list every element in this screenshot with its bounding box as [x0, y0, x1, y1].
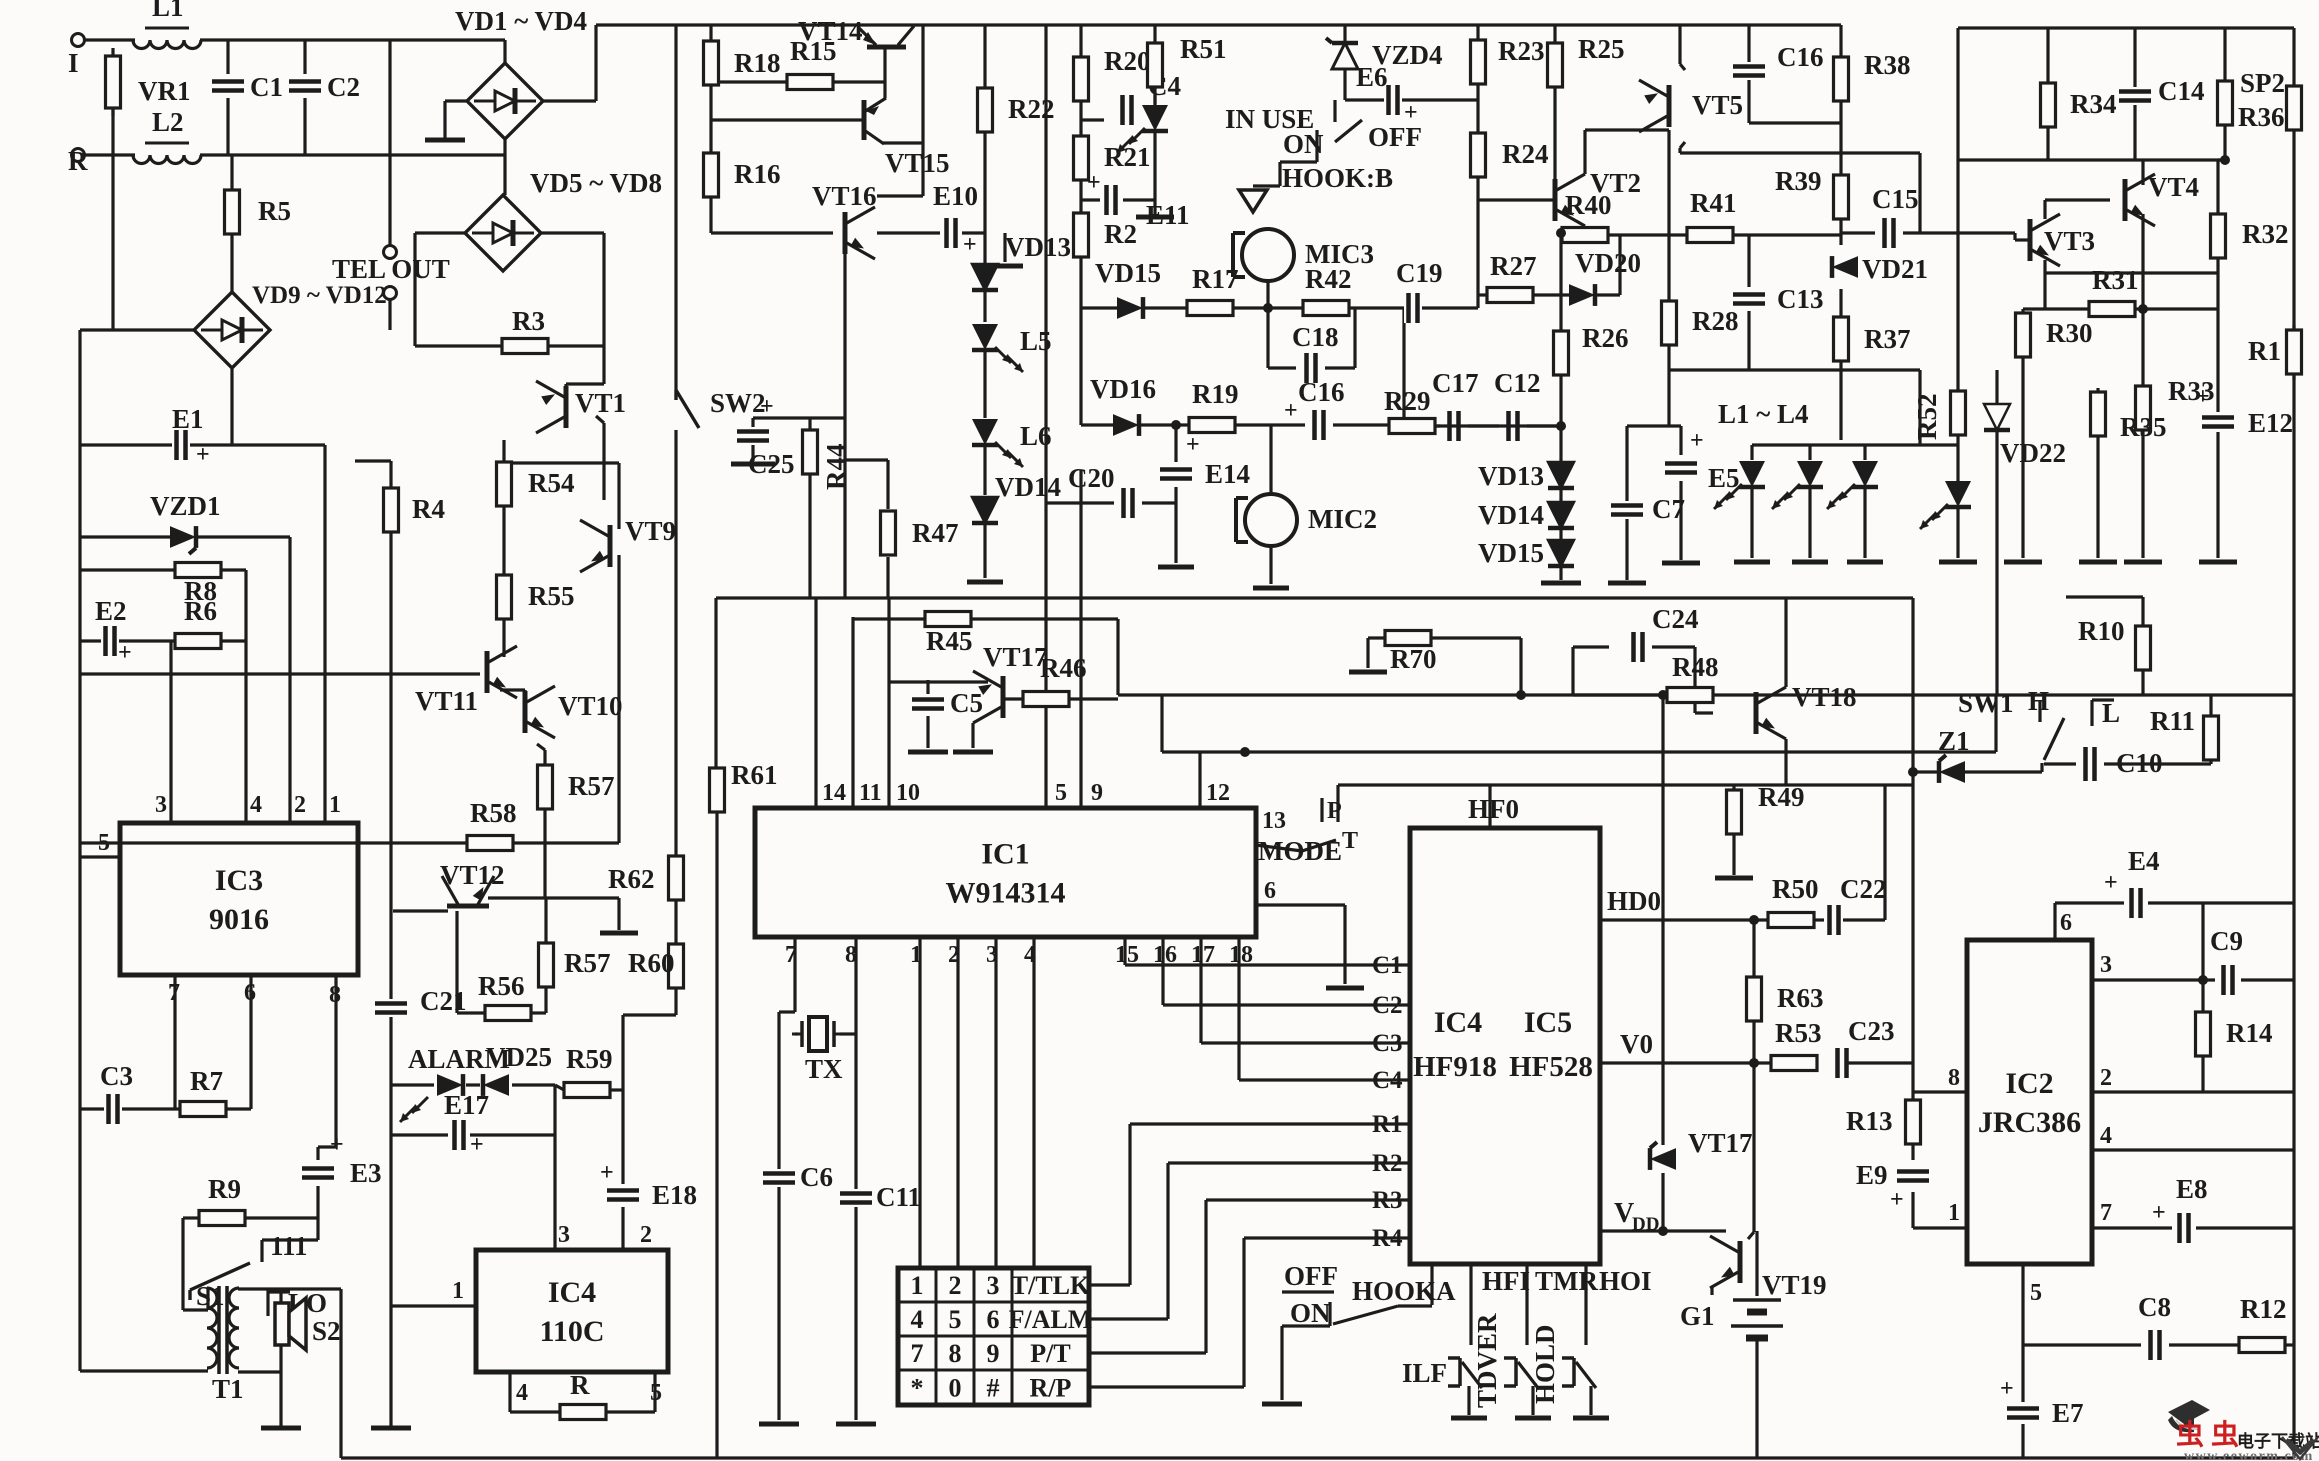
wire C8 row — [2023, 1343, 2294, 1346]
svg-text:+: + — [1087, 170, 1101, 196]
svg-text:VT11: VT11 — [415, 686, 478, 716]
svg-text:5: 5 — [650, 1380, 662, 1406]
svg-text:C17: C17 — [1432, 368, 1479, 398]
terminal TEL OUT lower — [384, 287, 397, 300]
resistor R48 — [1667, 652, 1719, 703]
capacitor C4 — [1118, 71, 1181, 125]
ground under C6 — [759, 1422, 799, 1427]
battery G1 — [1680, 1300, 1783, 1338]
wire E2-R6 row — [80, 639, 246, 642]
wire VZD4 column — [1343, 25, 1346, 100]
ground under C11 — [836, 1422, 876, 1427]
wire VT16 base row — [711, 231, 833, 234]
wire VT19 emitter — [1710, 1287, 1713, 1295]
resistor R41 — [1687, 188, 1737, 243]
svg-text:R51: R51 — [1180, 34, 1227, 64]
wire R1 row — [1130, 1122, 1410, 1125]
svg-text:I: I — [68, 48, 79, 78]
ground IC1 pin6 — [1326, 986, 1364, 991]
capacitor E1 — [172, 404, 210, 468]
switch SW2 — [676, 388, 766, 428]
resistor R58 — [467, 798, 517, 851]
wire hook switch body — [1253, 156, 1317, 186]
svg-text:VT17: VT17 — [1688, 1128, 1753, 1158]
wire IC3 pin4 stub — [244, 570, 247, 823]
transistor VT12 — [442, 876, 494, 906]
svg-text:R2: R2 — [1372, 1150, 1403, 1177]
wire C24 loop — [1573, 647, 1713, 713]
wire pin1 row — [1913, 1226, 1967, 1229]
wire VD13 stack column — [1559, 237, 1562, 580]
wire C15 row — [1841, 231, 2015, 234]
svg-text:1: 1 — [452, 1278, 464, 1304]
wire 111 jog — [262, 1218, 318, 1262]
diode VD14 stack2 — [1478, 500, 1574, 530]
capacitor C25 — [737, 394, 774, 445]
terminal R — [72, 149, 85, 162]
wire VT14-VT15 link column — [883, 49, 886, 98]
svg-text:R25: R25 — [1578, 34, 1625, 64]
resistor R25 — [1548, 34, 1625, 87]
wire S1 column — [181, 1218, 184, 1288]
svg-text:ILF: ILF — [1402, 1358, 1447, 1388]
svg-text:JRC386: JRC386 — [1978, 1106, 2081, 1139]
transistor VT2 — [1555, 174, 1585, 226]
transistor VT5 — [1639, 80, 1669, 132]
wire C23 to border — [1847, 1061, 1913, 1064]
svg-text:R60: R60 — [628, 948, 675, 978]
capacitor E12 — [2196, 384, 2293, 438]
svg-text:11: 11 — [859, 780, 882, 806]
capacitor C11 — [840, 1182, 921, 1212]
bridge rectifier VD1~VD4 — [467, 63, 543, 139]
wire IC3 pin6 column — [249, 976, 252, 1109]
svg-text:R46: R46 — [1040, 653, 1087, 683]
inductor L2 — [133, 107, 201, 164]
wire R15 row — [711, 80, 885, 83]
svg-text:E12: E12 — [2248, 408, 2293, 438]
zener Z1 — [1938, 726, 1970, 783]
capacitor C9 — [2210, 926, 2243, 995]
wire C17C12 row — [1404, 424, 1561, 427]
wire R7 row — [180, 1107, 228, 1110]
junction VDD — [1658, 1226, 1668, 1236]
svg-text:C12: C12 — [1494, 368, 1541, 398]
svg-text:1: 1 — [329, 792, 341, 818]
wire C18 loop — [1268, 308, 1355, 368]
svg-text:0: 0 — [949, 1374, 962, 1403]
transistor VT9 — [580, 520, 610, 572]
resistor R34 — [2041, 83, 2117, 127]
resistor R8 — [175, 563, 221, 607]
wire ON bracket2 — [1328, 1302, 1331, 1326]
svg-text:C25: C25 — [748, 449, 795, 479]
junction R70 drop — [1516, 690, 1526, 700]
wire VT19 collector — [1748, 1063, 1754, 1239]
junction R36 bottom — [2220, 155, 2230, 165]
svg-text:R3: R3 — [512, 306, 545, 336]
svg-text:R57: R57 — [564, 948, 611, 978]
wire R46 row — [1003, 697, 1118, 700]
resistor R45 — [925, 612, 973, 657]
switch S1 — [190, 1263, 250, 1311]
svg-text:VT5: VT5 — [1692, 90, 1743, 120]
svg-text:R19: R19 — [1192, 379, 1239, 409]
resistor R70 — [1385, 631, 1437, 675]
wire S2 top to bottom drop — [281, 1289, 341, 1458]
resistor R51 — [1148, 34, 1227, 87]
wire E10 row — [962, 231, 985, 234]
wire VD22 diode column — [1995, 370, 1998, 695]
svg-text:C3: C3 — [100, 1061, 133, 1091]
capacitor E2 — [95, 596, 132, 666]
resistor R22 — [978, 88, 1055, 132]
wire SP2 resistor stub — [2292, 86, 2295, 130]
wire bus y695 — [1118, 693, 2294, 696]
wire R61 bottom — [715, 812, 718, 1458]
ground under VD13 stack — [1541, 581, 1581, 586]
svg-text:DD: DD — [1632, 1214, 1659, 1235]
wire keypad col3 — [994, 937, 997, 1268]
wire VT2 base — [1478, 198, 1555, 201]
wire C3 row — [1201, 1041, 1410, 1044]
svg-text:IC3: IC3 — [215, 864, 263, 897]
wire R57b column — [544, 898, 547, 1013]
svg-text:R13: R13 — [1846, 1106, 1893, 1136]
wire VT9 links — [610, 520, 619, 843]
terminal I — [72, 34, 85, 47]
svg-text:VD25: VD25 — [486, 1042, 552, 1072]
resistor R55 — [497, 575, 575, 619]
wire VR1 column — [111, 48, 114, 116]
svg-text:R9: R9 — [208, 1174, 241, 1204]
ground under R33 — [2124, 560, 2162, 565]
wire TDVER gnd — [1531, 1386, 1534, 1415]
svg-text:C1: C1 — [1372, 952, 1403, 979]
bridge rectifier VD5~VD8 — [465, 195, 541, 271]
wire G1 column — [1755, 1231, 1758, 1458]
svg-text:VD5 ~ VD8: VD5 ~ VD8 — [530, 168, 662, 198]
wire V0 row — [1600, 1061, 1771, 1064]
transistor VT19 — [1710, 1236, 1740, 1288]
wire y273 row — [2143, 271, 2218, 274]
capacitor E17 — [444, 1090, 489, 1158]
capacitor C16 right — [1733, 42, 1824, 80]
svg-text:IC2: IC2 — [2005, 1067, 2053, 1100]
capacitor C3 — [100, 1061, 133, 1124]
LED VD22 — [1920, 481, 1971, 529]
svg-text:E6: E6 — [1356, 62, 1388, 92]
svg-text:R26: R26 — [1582, 323, 1629, 353]
capacitor E18 — [600, 1160, 697, 1210]
diode VD15 in row — [1095, 258, 1161, 319]
LED L6 — [972, 419, 1052, 467]
svg-text:E18: E18 — [652, 1180, 697, 1210]
wire IC1 pin12 column — [1198, 752, 1201, 808]
diode VD15 stack3 — [1478, 538, 1574, 568]
svg-text:R38: R38 — [1864, 50, 1911, 80]
svg-text:C2: C2 — [327, 72, 360, 102]
wire R44 column — [808, 418, 811, 598]
wire C2 column — [303, 40, 306, 155]
IC U-IC2 JRC386 — [1967, 940, 2092, 1264]
svg-text:C23: C23 — [1848, 1016, 1895, 1046]
svg-text:R70: R70 — [1390, 644, 1437, 674]
zener VT17b — [1650, 1128, 1753, 1170]
resistor R27 — [1487, 251, 1537, 303]
capacitor C18 — [1292, 322, 1339, 383]
wire R41 row — [1669, 233, 1841, 236]
resistor R7 — [180, 1066, 226, 1117]
resistor R56 — [478, 971, 531, 1021]
resistor R bottom — [560, 1370, 606, 1420]
svg-text:OFF: OFF — [1284, 1261, 1338, 1291]
svg-text:+: + — [470, 1132, 484, 1158]
capacitor C23 — [1833, 1016, 1895, 1078]
svg-text:VT4: VT4 — [2148, 172, 2199, 202]
svg-text:VD13: VD13 — [1478, 461, 1544, 491]
ground led3 — [1847, 560, 1883, 565]
svg-text:E4: E4 — [2128, 846, 2160, 876]
wire VT12 junction row — [488, 896, 619, 899]
svg-text:5: 5 — [949, 1305, 962, 1334]
wire L bracket — [2092, 700, 2114, 726]
wire IC3 pin7 column — [173, 976, 176, 1109]
resistor R23 — [1471, 36, 1545, 84]
svg-text:12: 12 — [1206, 780, 1230, 806]
svg-text:E1: E1 — [172, 404, 204, 434]
resistor R37 — [1834, 317, 1911, 361]
capacitor C17 — [1432, 368, 1479, 441]
svg-text:R7: R7 — [190, 1066, 223, 1096]
svg-text:R56: R56 — [478, 971, 525, 1001]
wire pin2 row — [2092, 1090, 2294, 1093]
wire VT12 base drop — [457, 911, 484, 1013]
svg-text:7: 7 — [911, 1339, 924, 1368]
svg-text:+: + — [1404, 100, 1418, 126]
capacitor C2 — [289, 72, 360, 102]
transistor VT4 — [2125, 174, 2155, 226]
svg-text:C2: C2 — [1372, 992, 1403, 1019]
resistor R31 — [2089, 265, 2139, 317]
svg-text:R: R — [68, 146, 88, 176]
ground under R35 — [2079, 560, 2117, 565]
wire bus y785 — [1338, 783, 1913, 786]
svg-text:R35: R35 — [2120, 412, 2167, 442]
transistor VT17a — [973, 671, 1003, 723]
svg-text:VT19: VT19 — [1762, 1270, 1827, 1300]
wire C6 column — [777, 1186, 780, 1420]
wire E14 column — [1174, 425, 1177, 563]
wire R52 column — [1956, 28, 1959, 391]
wire IC1 pin8 column — [854, 937, 857, 1190]
capacitor C13 — [1733, 284, 1824, 314]
wire keypad row2 link — [1089, 1163, 1168, 1319]
transistor VT14 — [798, 16, 914, 47]
wire x1162 drop — [1160, 695, 1163, 752]
wire C19-C17 column — [1402, 308, 1405, 426]
wire R14 column — [2201, 980, 2204, 1092]
wire VT3VT4 links — [2045, 200, 2143, 273]
svg-text:4: 4 — [2100, 1123, 2112, 1149]
svg-text:R36: R36 — [2238, 102, 2285, 132]
svg-text:8: 8 — [1948, 1065, 1960, 1091]
wire VR1 down column — [111, 108, 114, 330]
svg-text:E11: E11 — [1146, 200, 1190, 230]
resistor R12 — [2239, 1294, 2287, 1353]
ground under HOOKA — [1262, 1402, 1302, 1407]
capacitor C1 — [212, 72, 283, 102]
wire VD9 bridge links — [80, 234, 232, 445]
capacitor C6 — [763, 1162, 833, 1192]
wire pin6 column — [2053, 903, 2056, 940]
wire R59 row — [555, 1085, 623, 1090]
ground at VT12 — [600, 931, 638, 936]
svg-text:E2: E2 — [95, 596, 127, 626]
resistor R59 — [564, 1044, 613, 1098]
svg-text:VT17: VT17 — [983, 642, 1048, 672]
capacitor E9 — [1856, 1160, 1929, 1213]
wire C25 column — [751, 418, 754, 461]
resistor R32 — [2211, 214, 2289, 258]
svg-text:C24: C24 — [1652, 604, 1699, 634]
wire L1L4 leds row — [1752, 443, 1958, 446]
svg-text:R40: R40 — [1565, 190, 1612, 220]
svg-text:R21: R21 — [1104, 142, 1151, 172]
resistor R11 — [2150, 706, 2219, 760]
resistor R3 — [502, 306, 548, 354]
wire R47 elbow — [845, 460, 888, 598]
wire VT3 base — [2015, 233, 2030, 240]
junction E14 — [1171, 420, 1181, 430]
svg-text:E10: E10 — [933, 181, 978, 211]
IC U-IC1 W914314 — [755, 808, 1256, 937]
wire VT17b column — [1661, 695, 1664, 1231]
capacitor C19 — [1396, 258, 1443, 323]
junction MIC3 base — [1263, 303, 1273, 313]
capacitor C12 — [1494, 368, 1541, 441]
junction VT17b top — [1658, 690, 1668, 700]
wire E4 row — [2055, 901, 2294, 904]
capacitor E14 — [1160, 432, 1250, 489]
resistor R47 — [881, 511, 959, 555]
svg-text:R52: R52 — [1912, 394, 1942, 441]
wire top-right rail — [1958, 26, 2294, 29]
wire E4 to C9 drop — [2201, 903, 2204, 980]
svg-text:+: + — [1186, 432, 1200, 458]
wire C21 column — [389, 843, 392, 1428]
ground under E5 — [1662, 561, 1700, 566]
svg-text:2: 2 — [949, 1271, 962, 1300]
wire bottom border — [341, 1456, 2294, 1459]
wire OFF underline — [1282, 1290, 1334, 1293]
svg-text:+: + — [2000, 1376, 2014, 1402]
wire R23 column — [1476, 25, 1479, 200]
svg-text:+: + — [1890, 1187, 1904, 1213]
svg-text:C7: C7 — [1652, 494, 1685, 524]
ground led1 — [1734, 560, 1770, 565]
svg-text:HOOKA: HOOKA — [1352, 1276, 1456, 1306]
resistor R53 — [1771, 1018, 1822, 1071]
svg-text:R11: R11 — [2150, 706, 2195, 736]
capacitor E11 — [1087, 170, 1190, 230]
resistor R17 — [1187, 264, 1239, 316]
wire VT2VT5 left col — [1667, 130, 1670, 426]
resistor R57 second — [539, 943, 611, 987]
svg-text:VT15: VT15 — [885, 148, 950, 178]
wire R62 column — [674, 598, 677, 944]
svg-text:E14: E14 — [1205, 459, 1250, 489]
svg-text:R39: R39 — [1775, 166, 1822, 196]
svg-text:C8: C8 — [2138, 1292, 2171, 1322]
wire bridge2 left elbow — [415, 233, 465, 346]
wire VT2 collector — [1585, 130, 1669, 174]
wire HOOKA lever — [1333, 1306, 1432, 1324]
wire VT2 emitter col — [1561, 226, 1585, 233]
svg-text:HF918: HF918 — [1413, 1051, 1497, 1083]
wire bridge1 left to ground — [445, 101, 467, 138]
wire C11 column — [854, 1206, 857, 1420]
resistor R29 — [1384, 386, 1435, 434]
resistor SP2 element — [2287, 86, 2302, 130]
wire IC1 pin9 column — [1079, 470, 1082, 808]
svg-text:13: 13 — [1262, 808, 1286, 834]
bridge rectifier VD9~VD12 — [194, 292, 270, 368]
resistor R15 — [787, 36, 837, 90]
wire C20 row — [1046, 501, 1176, 504]
wire pin17 column — [1199, 937, 1202, 1043]
svg-text:C10: C10 — [2116, 748, 2163, 778]
svg-text:VT1: VT1 — [575, 388, 626, 418]
svg-text:R/P: R/P — [1030, 1374, 1072, 1403]
ground TDVER — [1515, 1416, 1551, 1421]
wire R34 column — [2046, 28, 2049, 160]
resistor R30 — [2016, 313, 2093, 357]
wire E5 column — [1679, 481, 1682, 560]
wire C1 row — [1125, 963, 1410, 966]
svg-text:111: 111 — [270, 1231, 308, 1261]
wire VZD1 row — [80, 535, 290, 538]
ground led2 — [1792, 560, 1828, 565]
svg-text:+: + — [1284, 398, 1298, 424]
svg-text:V0: V0 — [1620, 1029, 1653, 1059]
svg-text:R45: R45 — [926, 626, 973, 656]
ground ILF — [1451, 1416, 1487, 1421]
diode VD20 — [1569, 248, 1641, 306]
svg-text:2: 2 — [2100, 1065, 2112, 1091]
wire H contact — [2038, 700, 2041, 722]
svg-text:C4: C4 — [1372, 1067, 1403, 1094]
terminal TEL OUT upper — [384, 246, 397, 259]
wire C13 column — [1747, 235, 1750, 370]
svg-text:+: + — [600, 1160, 614, 1186]
resistor R16 — [704, 153, 781, 197]
svg-text:+: + — [963, 232, 977, 258]
wire keypad row1 link — [1089, 1124, 1130, 1285]
svg-text:L5: L5 — [1020, 326, 1052, 356]
wire bus x1913 — [1911, 598, 1914, 1092]
wire bridge1 right to top rail — [543, 25, 596, 101]
wire VT16 links — [845, 196, 940, 598]
resistor R54 — [497, 462, 575, 506]
svg-text:IC5: IC5 — [1524, 1006, 1572, 1039]
wire R61 column — [714, 598, 717, 768]
wire hook switch lever — [1335, 120, 1362, 142]
wire x1920 drop — [1918, 370, 1921, 445]
wire bus y598 — [716, 596, 1913, 599]
wire C10 row — [2044, 762, 2211, 765]
capacitor E5 — [1665, 428, 1740, 493]
